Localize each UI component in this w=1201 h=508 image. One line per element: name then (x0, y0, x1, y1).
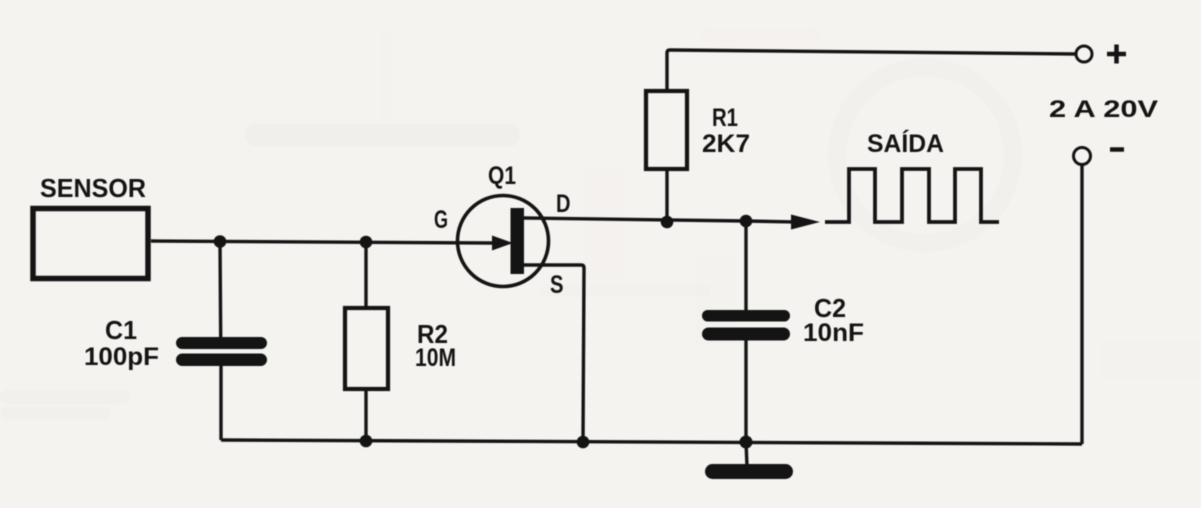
wire: negative rail right side (1080, 165, 1083, 444)
wire: C1 bottom lead (219, 366, 222, 440)
node: gate/R2 junction (360, 236, 373, 249)
svg-text:100pF: 100pF (84, 343, 159, 371)
capacitor C2 top plate (702, 310, 790, 322)
wire: ground stub (746, 442, 747, 466)
svg-text:C1: C1 (105, 315, 137, 345)
node: drain/C2 junction (740, 215, 753, 228)
wire: C2 bottom lead (744, 340, 747, 442)
wire: R1 bottom lead (665, 169, 668, 222)
node: R2/ground junction (360, 435, 373, 448)
wire: gate arrowhead into Q1 (492, 236, 513, 251)
ground rail (bottom wire) (221, 440, 1082, 444)
node: gate/C1 junction (214, 235, 227, 248)
sensor box SENSOR (33, 209, 148, 279)
wire: R1 top lead and positive supply rail (667, 50, 1076, 91)
resistor R2 body (345, 308, 388, 389)
wire: C2 top lead (744, 221, 747, 310)
svg-text:D: D (556, 190, 571, 218)
node: drain/R1 junction (661, 216, 674, 229)
wire: R2 bottom lead (364, 389, 367, 441)
node: source/ground junction (577, 436, 590, 449)
wire: drain net (Q1 D to C2 junction) (524, 218, 746, 221)
output square wave (825, 169, 999, 222)
output arrowhead (791, 215, 820, 230)
capacitor C1 top plate (176, 337, 267, 349)
svg-text:G: G (434, 206, 448, 234)
wire: output arrow shaft (746, 221, 794, 222)
svg-text:2 A 20V: 2 A 20V (1049, 96, 1158, 123)
ground symbol bar (705, 464, 793, 479)
wire: gate net horizontal (sensor to Q1 gate) (151, 241, 493, 243)
terminal: positive (1076, 46, 1092, 62)
transistor Q1 channel bar (511, 208, 525, 274)
plus sign (1107, 45, 1126, 64)
wire: source lead down to ground rail (524, 265, 584, 442)
svg-text:10M: 10M (415, 344, 456, 372)
svg-text:2K7: 2K7 (702, 130, 750, 158)
minus sign (1110, 147, 1124, 152)
terminal: negative (1074, 148, 1091, 165)
transistor Q1 circle (458, 196, 549, 287)
svg-text:10nF: 10nF (803, 319, 864, 347)
capacitor C1 bottom plate (176, 354, 267, 367)
wire: C1 top lead (218, 241, 222, 337)
svg-text:Q1: Q1 (488, 162, 516, 190)
resistor R1 body (646, 91, 687, 169)
svg-text:SENSOR: SENSOR (40, 173, 146, 203)
svg-text:R1: R1 (712, 104, 738, 132)
node: C2/ground junction (740, 436, 753, 449)
svg-text:SAÍDA: SAÍDA (867, 129, 944, 158)
svg-text:S: S (550, 271, 564, 299)
capacitor C2 bottom plate (702, 328, 790, 341)
faint scan ghosts (decorative) (0, 28, 1201, 419)
wire: R2 top lead (364, 242, 367, 308)
